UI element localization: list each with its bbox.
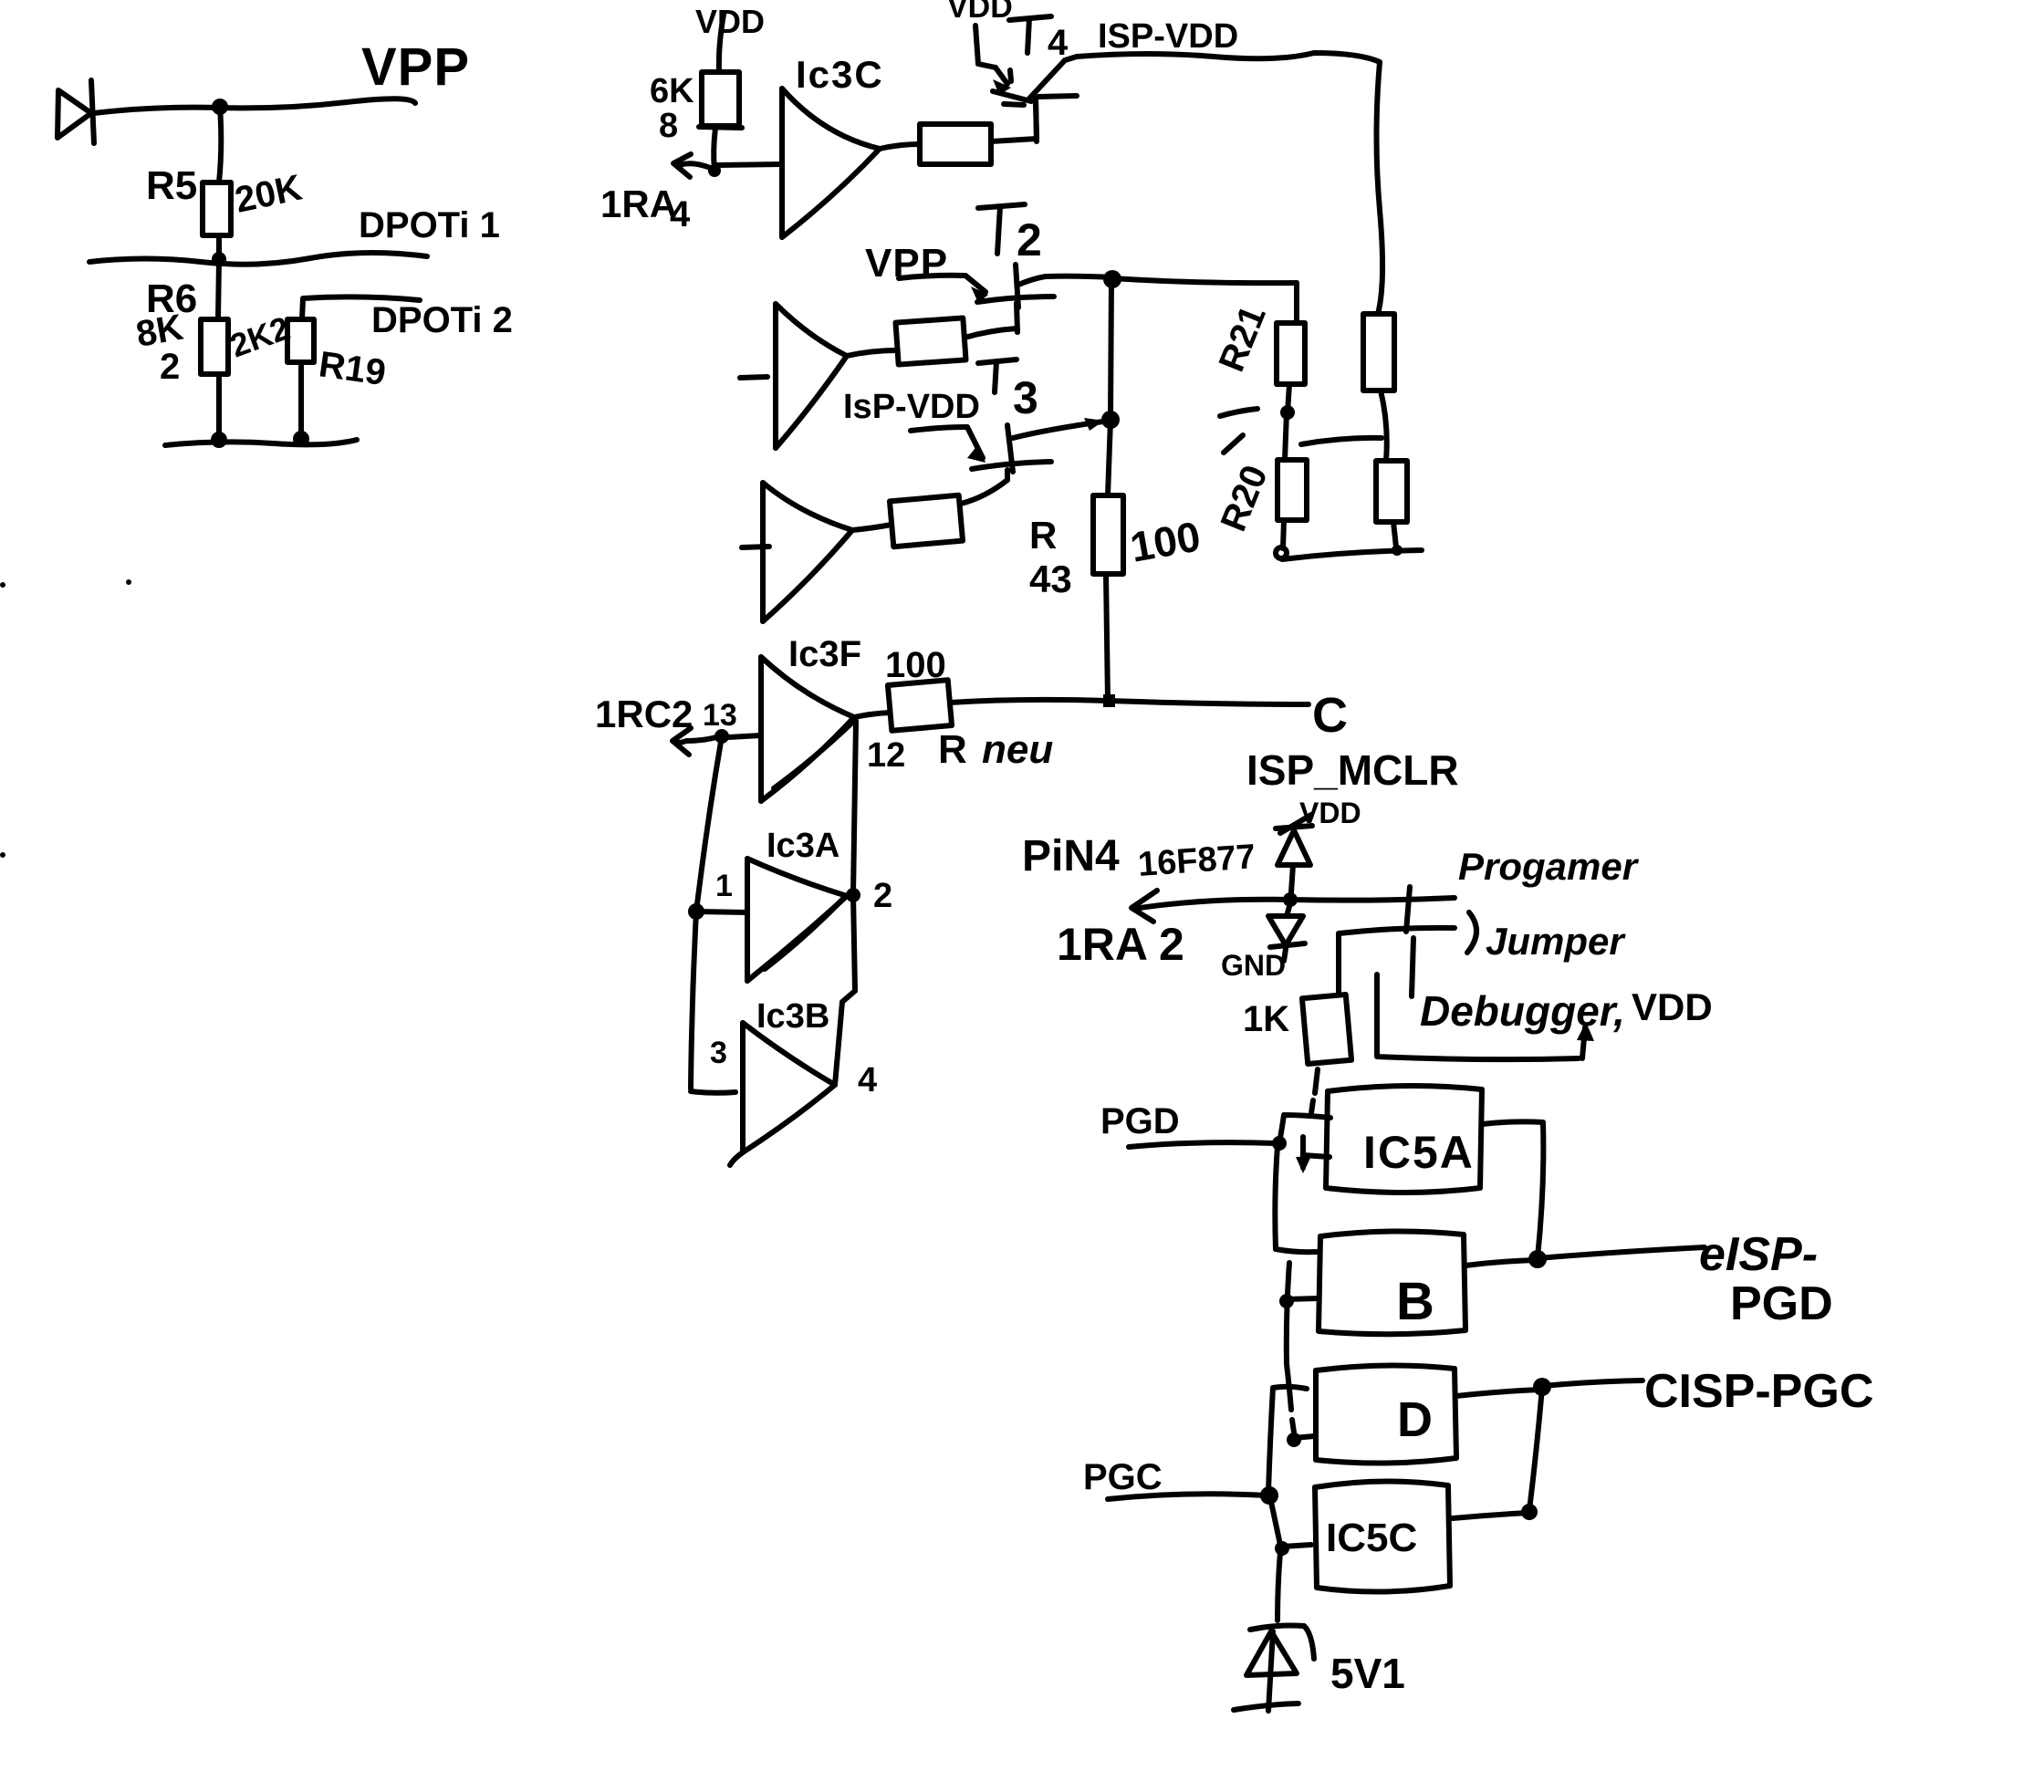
svg-text:C: C: [1312, 688, 1348, 743]
node R19 bottom junction: [293, 431, 309, 447]
wire R19 to rail: [298, 362, 304, 437]
svg-text:Ic3F: Ic3F: [788, 634, 861, 674]
svg-text:ISP-VDD: ISP-VDD: [1098, 17, 1238, 56]
wire arrow to 1RA4: [673, 154, 714, 177]
value 8K2: [133, 307, 186, 387]
wire pin1 to IC3A: [696, 912, 747, 912]
wire node A to R21: [1112, 278, 1297, 283]
svg-text:4: 4: [670, 194, 691, 234]
svg-text:VDD: VDD: [695, 3, 765, 40]
svg-text:R21: R21: [1212, 300, 1274, 378]
wire MCLR segment to D: [1287, 1364, 1294, 1433]
wire ISP-VDD rail top: [1065, 53, 1380, 62]
svg-text:Ic3B: Ic3B: [756, 997, 829, 1036]
wire IC5C out to junction: [1453, 1513, 1529, 1518]
svg-text:3: 3: [1013, 372, 1038, 423]
wire PGC bracket to D: [1268, 1387, 1307, 1492]
wire VPP to R5: [219, 107, 221, 182]
transistor T3: [911, 425, 1051, 480]
wire MCLR segment to B: [1287, 1263, 1289, 1364]
buffer IC3A: [747, 859, 847, 981]
wire PGD bracket to B: [1275, 1146, 1317, 1252]
wire R neu to node C: [950, 700, 1107, 703]
wire R5 to DPOTI1: [216, 235, 222, 258]
node VPP junction: [212, 99, 228, 115]
svg-text:PGC: PGC: [1083, 1457, 1163, 1497]
zener diode 5V1: [1246, 1626, 1314, 1712]
wire VPP horizontal: [94, 99, 415, 113]
wire bottom rail: [165, 440, 357, 445]
svg-text:3: 3: [710, 1036, 727, 1070]
svg-text:R19: R19: [317, 344, 389, 393]
wire PGD: [1129, 1142, 1276, 1147]
wire MCLR segment past PGC: [1271, 1502, 1280, 1545]
jumper bar 1: [1406, 887, 1410, 932]
svg-text:GND: GND: [1221, 949, 1286, 982]
buffer IC3F: [761, 657, 854, 801]
wire R19 top to DPOTI2: [302, 297, 420, 319]
wire IC5A out: [1482, 1121, 1543, 1257]
wire node to D box: [1294, 1436, 1314, 1438]
wire down to 1k: [1336, 933, 1341, 993]
buffer IC3B: [730, 1023, 835, 1165]
switch tick 1: [1220, 409, 1257, 416]
pin label 1RA4: [600, 182, 691, 234]
buffer B box: [1319, 1231, 1465, 1334]
wire T3 collector to node B with arrow: [1013, 418, 1110, 438]
buffer IC3C: [782, 89, 880, 237]
svg-text:2: 2: [1017, 214, 1042, 266]
node A (T2 collector junction): [1103, 270, 1121, 288]
svg-text:IC5A: IC5A: [1363, 1127, 1475, 1178]
buffer IC5C box: [1315, 1481, 1450, 1591]
resistor R19: [287, 319, 314, 362]
value 6K8: [650, 72, 694, 145]
svg-text:DPOTi 1: DPOTi 1: [359, 205, 500, 245]
svg-text:VDD: VDD: [947, 0, 1013, 25]
wire node A down to node B: [1111, 279, 1111, 419]
resistor T3 base: [890, 495, 963, 547]
svg-text:neu: neu: [982, 727, 1053, 772]
diode to VDD: [1276, 815, 1312, 892]
svg-text:16F877: 16F877: [1137, 838, 1257, 884]
svg-text:2K2: 2K2: [225, 308, 295, 364]
transistor T4: [975, 26, 1077, 141]
wire down to R21: [1294, 283, 1299, 323]
svg-text:IC5C: IC5C: [1326, 1516, 1417, 1560]
svg-text:IsP-VDD: IsP-VDD: [843, 388, 980, 426]
label T4: [1009, 16, 1069, 63]
wire junction to eISP-PGD: [1538, 1247, 1705, 1258]
wire VDD to 6K8: [719, 15, 724, 72]
paper speck 1: [0, 582, 5, 588]
wire arrow 1RC2: [673, 728, 761, 755]
wire Debugger VDD: [1377, 974, 1594, 1059]
label R neu: [938, 727, 1053, 772]
buffer IC3E (unlabeled, drives T3): [742, 483, 852, 621]
transistor T2: [977, 265, 1054, 332]
wire node to IC5C box: [1282, 1545, 1311, 1547]
wire buffer to resistor: [847, 350, 897, 356]
wire CISP junction down: [1529, 1388, 1542, 1510]
svg-text:1RA 2: 1RA 2: [1057, 919, 1184, 970]
resistor R20: [1277, 460, 1307, 520]
wire jumper second row: [1339, 928, 1455, 933]
svg-text:VDD: VDD: [1632, 985, 1713, 1028]
svg-text:CISP-PGC: CISP-PGC: [1644, 1365, 1873, 1418]
node pin2 junction: [846, 888, 860, 902]
wire between right col resistors: [1381, 391, 1387, 461]
resistor R neu 100: [854, 680, 952, 731]
svg-text:R: R: [1029, 514, 1057, 557]
wire IC3C out: [880, 144, 920, 149]
svg-text:B: B: [1396, 1272, 1434, 1331]
svg-text:5V1: 5V1: [1330, 1650, 1405, 1697]
resistor R21: [1277, 323, 1305, 384]
wire resistor to T4 base: [991, 99, 1037, 141]
svg-text:R20: R20: [1214, 460, 1276, 537]
node IC5C input junction: [1275, 1541, 1289, 1556]
svg-text:PiN4: PiN4: [1022, 832, 1120, 880]
svg-text:8: 8: [659, 107, 678, 145]
svg-text:Ic3C: Ic3C: [796, 53, 884, 96]
wire PGD bracket to IC5A: [1279, 1115, 1330, 1143]
wire junction to CISP-PGC label: [1542, 1380, 1642, 1386]
node MCLR junction: [1283, 892, 1298, 907]
wire PGC: [1108, 1494, 1267, 1499]
label ) Jumper: [1467, 912, 1626, 963]
node PGD junction: [1272, 1136, 1287, 1151]
wire 6K8 to node: [714, 128, 715, 171]
paper speck 3: [126, 579, 131, 585]
resistor right col bottom: [1376, 461, 1407, 522]
node 1RA4 junction: [708, 164, 721, 177]
wire dashed MCLR down: [1311, 1069, 1318, 1113]
svg-text:PGD: PGD: [1100, 1101, 1180, 1141]
svg-text:43: 43: [1029, 557, 1072, 600]
node PGC junction: [1260, 1486, 1278, 1505]
node DPOTI1 junction: [212, 252, 226, 266]
wire VPP to T2 arrow: [899, 276, 988, 303]
svg-text:12: 12: [867, 736, 905, 775]
label T2: [978, 204, 1042, 266]
wire DPOTI1: [89, 253, 427, 265]
svg-text:R: R: [938, 727, 967, 772]
wire ISP-VDD rail vertical: [1377, 62, 1383, 314]
svg-text:1RA: 1RA: [600, 182, 677, 225]
node D input junction: [1287, 1433, 1301, 1447]
wire R6 to ground rail: [216, 374, 222, 439]
wire MCLR into IC5A: [1296, 1137, 1330, 1173]
label PIN4 16F877: [1022, 832, 1257, 884]
svg-text:PGD: PGD: [1730, 1277, 1833, 1330]
buffer IC5A box: [1326, 1086, 1482, 1193]
svg-text:2: 2: [873, 877, 892, 915]
node eISP-PGD junction: [1528, 1250, 1547, 1268]
svg-text:4: 4: [1048, 23, 1069, 63]
node C junction: [1103, 694, 1115, 707]
svg-text:VPP: VPP: [361, 37, 470, 97]
node CISP-PGC junction: [1533, 1378, 1551, 1396]
node IC5C out junction: [1521, 1504, 1538, 1520]
wire T2 collector to node A: [1046, 276, 1111, 277]
node R6 bottom junction: [211, 432, 227, 448]
wire cross link: [1301, 438, 1382, 444]
label R43: [1029, 514, 1072, 600]
node pin1 junction: [688, 903, 704, 920]
resistor right col top: [1363, 314, 1394, 391]
switch tick 2: [1224, 435, 1243, 453]
diode to GND: [1268, 903, 1305, 961]
wire R20 to bottom: [1276, 520, 1287, 558]
wire pin2 down to IC3B out: [835, 895, 855, 1085]
svg-text:D: D: [1397, 1392, 1433, 1447]
wire node C to C label: [1109, 701, 1309, 704]
node B (T3 collector junction): [1101, 411, 1120, 429]
diode D1: [57, 80, 94, 143]
wire to zener: [1277, 1552, 1280, 1620]
wire node to IC3C input: [716, 164, 782, 165]
node pin13 junction: [714, 729, 729, 744]
buffer IC3D (unlabeled, drives T2): [740, 304, 847, 448]
node below R21: [1280, 384, 1295, 460]
svg-text:2: 2: [160, 347, 180, 387]
svg-text:6K: 6K: [650, 72, 694, 110]
resistor R6: [201, 319, 228, 374]
svg-text:100: 100: [885, 645, 946, 685]
svg-text:1RC2: 1RC2: [595, 693, 693, 735]
svg-text:1K: 1K: [1243, 999, 1289, 1039]
svg-text:Debugger,: Debugger,: [1420, 987, 1625, 1035]
label T3: [978, 359, 1038, 423]
paper speck 2: [0, 852, 5, 858]
svg-text:13: 13: [703, 698, 737, 733]
wire resistor to T2 emitter: [965, 328, 1017, 338]
pin label 1RC2 13: [595, 693, 737, 735]
svg-text:R5: R5: [146, 163, 197, 208]
svg-text:4: 4: [858, 1061, 877, 1099]
jumper bar 2: [1412, 938, 1413, 996]
svg-text:100: 100: [1127, 512, 1204, 571]
resistor T2 base: [895, 318, 965, 364]
buffer D box: [1316, 1365, 1456, 1463]
wire right col to bottom rail: [1392, 522, 1403, 556]
svg-text:Progamer: Progamer: [1458, 845, 1640, 888]
wire node to B box: [1287, 1298, 1319, 1299]
label Debugger VDD: [1420, 985, 1713, 1035]
resistor R5: [203, 182, 231, 235]
net label eISP-PGD: [1699, 1228, 1833, 1330]
resistor 1K: [1302, 995, 1351, 1064]
wire left bus 13-1-3: [691, 736, 735, 1093]
svg-text:DPOTi 2: DPOTi 2: [371, 300, 513, 340]
wire IC3F out down to pin2: [853, 721, 856, 894]
wire DPOTI1 to R6: [218, 259, 219, 319]
wire T3 emitter to resistor: [961, 480, 1007, 504]
wire B out to junction: [1465, 1260, 1538, 1266]
wire bottom rail right: [1282, 550, 1422, 559]
ground symbol: [1234, 1703, 1298, 1710]
svg-text:1: 1: [715, 869, 733, 903]
wire D out: [1456, 1390, 1540, 1396]
svg-text:Ic3A: Ic3A: [766, 827, 839, 865]
resistor R43: [1093, 420, 1123, 701]
svg-text:ISP_MCLR: ISP_MCLR: [1246, 746, 1459, 794]
wire MCLR horizontal with arrow: [1131, 891, 1455, 922]
svg-text:20K: 20K: [232, 167, 306, 220]
wire resistor to buffer3: [852, 525, 892, 530]
node B input junction: [1279, 1294, 1294, 1308]
svg-text:eISP-: eISP-: [1699, 1228, 1818, 1281]
svg-text:Jumper: Jumper: [1486, 920, 1626, 963]
resistor after IC3C: [920, 124, 991, 164]
resistor 6K8: [699, 72, 742, 128]
